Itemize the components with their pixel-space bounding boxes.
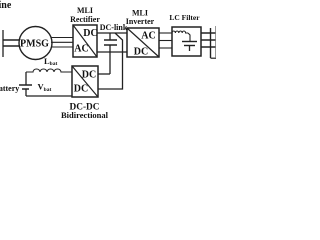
- capacitor C filter: [182, 41, 197, 43]
- svg-text:Inverter: Inverter: [126, 17, 155, 26]
- wire 3-phase c: [51, 46, 73, 48]
- svg-text:MLI: MLI: [77, 6, 93, 15]
- wire: [3, 45, 20, 47]
- svg-text:AC: AC: [74, 44, 88, 55]
- transformer winding (cropped): [210, 28, 212, 58]
- svg-text:ine: ine: [0, 0, 12, 11]
- svg-text:Rectifier: Rectifier: [70, 15, 100, 24]
- wire 3-phase a filter out: [201, 32, 216, 34]
- wire dc-dc lower to top rail: [98, 33, 123, 89]
- wire 3-phase b inverter out: [159, 40, 172, 42]
- wire 3-phase c filter out: [201, 46, 216, 48]
- svg-text:Battery: Battery: [0, 84, 19, 93]
- wire 3-phase b: [51, 41, 73, 43]
- wire filter elbow: [188, 33, 190, 42]
- battery cell B1: [25, 72, 27, 85]
- svg-text:DC: DC: [83, 28, 97, 39]
- wire 3-phase a: [51, 37, 73, 39]
- wire 3-phase a inverter out: [159, 32, 172, 34]
- transformer box bottom edge (cropped): [211, 57, 217, 59]
- shaft wire: [3, 39, 20, 41]
- inductor L bat: [26, 69, 72, 72]
- wire 3-phase c inverter out: [159, 47, 172, 49]
- node DC-link top rail: [97, 32, 127, 34]
- wire dc-dc upper to bottom rail: [109, 45, 111, 74]
- capacitor C dc-link: [109, 33, 111, 40]
- svg-text:PMSG: PMSG: [20, 39, 49, 50]
- MLI inverter box: [127, 28, 159, 57]
- wire 3-phase b filter out: [201, 39, 216, 41]
- transformer box right edge (cropped at image boundary): [215, 26, 217, 58]
- inductor L filter: [172, 31, 188, 33]
- svg-text:Bidirectional: Bidirectional: [61, 110, 109, 120]
- svg-text:LC Filter: LC Filter: [169, 13, 200, 22]
- wire battery bottom: [26, 95, 72, 97]
- generator PMSG: [19, 27, 52, 60]
- node DC-link bottom rail: [97, 51, 127, 53]
- wind turbine (cropped): [2, 30, 4, 57]
- MLI rectifier box: [73, 25, 97, 57]
- svg-text:MLI: MLI: [132, 8, 148, 17]
- svg-text:AC: AC: [141, 31, 155, 42]
- DC-DC bidirectional converter box: [72, 66, 98, 97]
- svg-text:DC-link: DC-link: [100, 23, 128, 32]
- LC filter box: [172, 27, 201, 56]
- svg-text:DC: DC: [134, 47, 148, 58]
- svg-text:DC: DC: [82, 70, 96, 81]
- svg-text:DC: DC: [74, 84, 88, 95]
